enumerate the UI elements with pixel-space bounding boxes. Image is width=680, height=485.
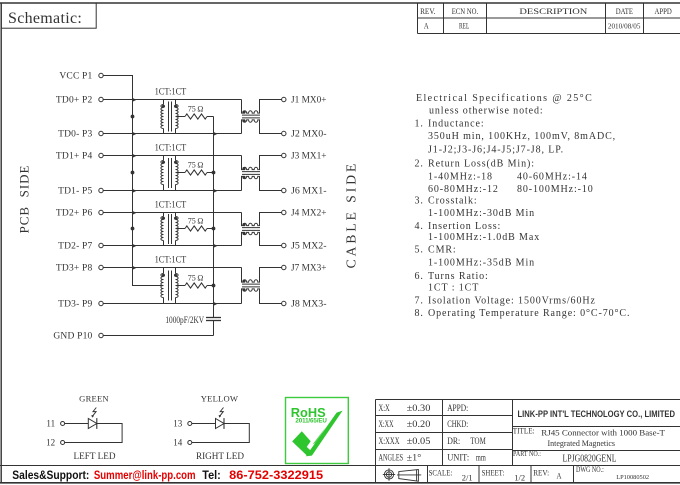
svg-text:TD1+ P4: TD1+ P4 [56, 152, 93, 162]
svg-text:75 Ω: 75 Ω [188, 274, 204, 283]
wire R2 to common rail [207, 172, 214, 174]
transformer T4 1CT:1CT [161, 268, 178, 304]
wire bottom rail channel 4 [103, 303, 241, 305]
pin 12 [46, 438, 65, 448]
pin 11 [46, 419, 64, 429]
page border left [0, 3, 2, 483]
svg-text:1CT:1CT: 1CT:1CT [155, 87, 187, 97]
wire R3 to common rail [207, 228, 214, 230]
svg-text:CABLE SIDE: CABLE SIDE [344, 161, 359, 269]
junction dots VCC rail [131, 115, 135, 231]
svg-text:ECN NO.: ECN NO. [452, 6, 479, 16]
pin P5 TD1- [58, 187, 103, 197]
svg-text:APPD:: APPD: [447, 403, 468, 413]
svg-text:1-100MHz:-1.0dB Max: 1-100MHz:-1.0dB Max [428, 232, 540, 243]
svg-text:A: A [424, 20, 429, 30]
svg-text:7.: 7. [415, 295, 424, 306]
svg-text:TD2+ P6: TD2+ P6 [56, 209, 93, 219]
RoHS logo [286, 398, 349, 464]
svg-text:Summer@link-pp.com: Summer@link-pp.com [94, 468, 196, 482]
svg-text:UNIT:: UNIT: [447, 453, 469, 463]
svg-text:Integrated Magnetics: Integrated Magnetics [548, 438, 616, 448]
svg-text:J2 MX0-: J2 MX0- [291, 130, 327, 140]
pin P2 TD0+ [56, 96, 103, 106]
svg-text:4.: 4. [415, 221, 424, 232]
svg-text:Electrical Specifications @ 25: Electrical Specifications @ 25°C [416, 93, 593, 104]
pin P6 TD2+ [56, 209, 103, 219]
pin 14 [173, 438, 192, 448]
title block [0, 400, 680, 483]
svg-text:VCC P1: VCC P1 [59, 72, 92, 82]
svg-text:J3 MX1+: J3 MX1+ [291, 152, 327, 162]
svg-text:CHKD:: CHKD: [447, 419, 468, 429]
svg-text:A: A [557, 471, 563, 481]
wire T3 secondary tap [176, 228, 186, 230]
page border top [0, 2, 680, 4]
svg-text:13: 13 [173, 419, 183, 429]
svg-text:X:XXX: X:XXX [379, 436, 400, 446]
LED LEFT LED lightning arrow [93, 408, 97, 417]
svg-text:60-80MHz:-12: 60-80MHz:-12 [428, 184, 499, 195]
svg-text:86-752-3322915: 86-752-3322915 [229, 468, 323, 482]
svg-text:1-100MHz:-30dB Min: 1-100MHz:-30dB Min [428, 208, 535, 219]
svg-text:75 Ω: 75 Ω [188, 161, 204, 170]
svg-text:CMR:: CMR: [428, 245, 457, 256]
svg-text:40-60MHz:-14: 40-60MHz:-14 [517, 172, 588, 183]
svg-text:TD0- P3: TD0- P3 [58, 130, 92, 140]
pin J8 [282, 300, 327, 310]
svg-text:unless otherwise noted:: unless otherwise noted: [429, 106, 544, 117]
transformer T1 1CT:1CT [161, 100, 178, 134]
svg-text:12: 12 [46, 438, 55, 448]
svg-text:5.: 5. [415, 245, 424, 256]
common-mode choke L4 [242, 268, 282, 304]
transformer T2 1CT:1CT [161, 156, 178, 191]
pin P9 TD3- [58, 300, 103, 310]
svg-text:6.: 6. [415, 271, 424, 282]
svg-text:11: 11 [46, 419, 55, 429]
wire crossing marks on common rail [214, 132, 218, 306]
svg-text:Turns Ratio:: Turns Ratio: [428, 271, 489, 282]
svg-text:Schematic:: Schematic: [8, 10, 82, 27]
svg-text:DR:: DR: [447, 436, 460, 446]
wire T2 secondary tap [176, 172, 186, 174]
wire bottom rail channel 3 [103, 245, 241, 247]
svg-text:DWG NO.:: DWG NO.: [576, 464, 604, 474]
svg-text:X:XX: X:XX [379, 419, 394, 429]
schematic title box [1, 3, 96, 28]
wire top rail channel 3 [103, 212, 241, 214]
svg-text:±0.05: ±0.05 [407, 436, 431, 446]
svg-text:REL: REL [459, 20, 469, 30]
svg-text:Sales&Support:: Sales&Support: [12, 468, 89, 482]
revision table [418, 3, 680, 34]
svg-text:350uH min, 100KHz, 100mV, 8mAD: 350uH min, 100KHz, 100mV, 8mADC, [428, 131, 616, 142]
svg-text:Crosstalk:: Crosstalk: [428, 196, 478, 207]
svg-text:±1°: ±1° [407, 453, 422, 463]
wire R4 to common rail [207, 285, 214, 287]
svg-text:14: 14 [173, 438, 183, 448]
svg-text:J8 MX3-: J8 MX3- [291, 300, 327, 310]
svg-text:1.: 1. [415, 119, 424, 130]
svg-text:REV.: REV. [420, 6, 435, 16]
resistor R2 75 Ohm [185, 161, 207, 176]
svg-text:mm: mm [476, 453, 486, 463]
svg-text:75 Ω: 75 Ω [188, 105, 204, 114]
svg-text:ANGLES: ANGLES [379, 453, 404, 463]
svg-text:2/1: 2/1 [462, 472, 473, 482]
common-mode choke L2 [242, 156, 282, 191]
svg-text:PART NO.:: PART NO.: [513, 449, 541, 458]
svg-text:Isolation Voltage: 1500Vrms/60: Isolation Voltage: 1500Vrms/60Hz [428, 295, 596, 306]
svg-text:LPJG0820GENL: LPJG0820GENL [563, 454, 617, 465]
svg-text:1-100MHz:-35dB Min: 1-100MHz:-35dB Min [428, 257, 535, 268]
svg-text:TITLE:: TITLE: [513, 427, 535, 436]
transformer T3 1CT:1CT [161, 213, 178, 246]
pin P10 GND [53, 332, 103, 342]
svg-text:2010/08/05: 2010/08/05 [608, 23, 641, 30]
wire top rail channel 4 [103, 267, 241, 269]
svg-text:1CT:1CT: 1CT:1CT [155, 255, 187, 265]
svg-text:SCALE:: SCALE: [429, 467, 453, 477]
wire bottom rail channel 2 [103, 190, 241, 192]
pin 13 [173, 419, 192, 429]
svg-text:1CT:1CT: 1CT:1CT [155, 200, 187, 210]
svg-text:RJ45 Connector with 1000 Base-: RJ45 Connector with 1000 Base-T [541, 427, 666, 437]
LED RIGHT LED diode [216, 418, 225, 429]
svg-text:GREEN: GREEN [79, 394, 109, 404]
svg-text:8.: 8. [415, 308, 424, 319]
svg-text:TD2- P7: TD2- P7 [58, 242, 92, 252]
wire T4 secondary tap [176, 285, 186, 287]
svg-text:DATE: DATE [616, 6, 633, 16]
svg-text:2.: 2. [415, 159, 424, 170]
pin J1 [282, 96, 327, 106]
svg-text:APPD: APPD [655, 6, 672, 16]
svg-text:±0.20: ±0.20 [407, 419, 431, 429]
svg-text:LP10080502: LP10080502 [616, 474, 649, 481]
svg-text:J6 MX1-: J6 MX1- [291, 187, 327, 197]
wire GND P10 to capacitor [103, 335, 213, 337]
svg-text:TD3+ P8: TD3+ P8 [56, 264, 93, 274]
svg-text:1CT : 1CT: 1CT : 1CT [428, 283, 479, 294]
svg-text:LEFT LED: LEFT LED [74, 451, 116, 461]
svg-text:RIGHT LED: RIGHT LED [196, 451, 244, 461]
page border bottom [0, 482, 680, 484]
resistor R3 75 Ohm [185, 217, 207, 232]
svg-text:GND P10: GND P10 [53, 332, 92, 342]
resistor R4 75 Ohm [185, 274, 207, 289]
svg-text:3.: 3. [415, 196, 424, 207]
cone symbol [397, 470, 421, 482]
svg-text:Tel:: Tel: [202, 468, 221, 482]
wire LED RIGHT LED loop [192, 424, 250, 443]
wire R1 to common rail [207, 116, 214, 118]
pin J7 [282, 264, 327, 274]
svg-text:J7 MX3+: J7 MX3+ [291, 264, 327, 274]
wire T1 secondary tap [176, 116, 186, 118]
pin J3 [282, 152, 327, 162]
common-mode choke L3 [242, 213, 282, 246]
net rail: 75ohm commons to capacitor [213, 117, 215, 318]
capacitor C1 1000pF/2KV [165, 315, 221, 335]
LED RIGHT LED lightning arrow [220, 408, 224, 417]
svg-text:Inductance:: Inductance: [428, 119, 485, 130]
pin J6 [282, 187, 327, 197]
svg-text:TD3- P9: TD3- P9 [58, 300, 92, 310]
svg-text:PCB SIDE: PCB SIDE [16, 165, 31, 234]
pin P7 TD2- [58, 242, 103, 252]
svg-text:1/2: 1/2 [514, 472, 525, 482]
svg-text:1-40MHz:-18: 1-40MHz:-18 [428, 172, 493, 183]
junction dots common rail [212, 171, 216, 288]
electrical specifications notes [415, 93, 631, 319]
svg-text:J4 MX2+: J4 MX2+ [291, 209, 327, 219]
svg-text:75 Ω: 75 Ω [188, 217, 204, 226]
pin J4 [282, 209, 327, 219]
svg-text:±0.30: ±0.30 [407, 403, 431, 413]
pin P1 VCC [59, 72, 103, 82]
common-mode choke L1 [242, 100, 282, 134]
wire crossing marks on VCC rail [133, 98, 137, 270]
svg-text:DESCRIPTION: DESCRIPTION [519, 6, 588, 16]
svg-text:SHEET:: SHEET: [482, 467, 505, 477]
svg-text:YELLOW: YELLOW [201, 394, 239, 404]
svg-text:Return Loss(dB Min):: Return Loss(dB Min): [428, 159, 535, 170]
svg-text:J1-J2;J3-J6;J4-J5;J7-J8, LP.: J1-J2;J3-J6;J4-J5;J7-J8, LP. [428, 145, 564, 156]
pin J5 [282, 242, 327, 252]
svg-text:J1 MX0+: J1 MX0+ [291, 96, 327, 106]
svg-text:Operating Temperature Range: 0: Operating Temperature Range: 0°C-70°C. [428, 308, 630, 319]
projection symbol [383, 468, 395, 480]
wire top rail channel 1 [103, 99, 241, 101]
pin P4 TD1+ [56, 152, 103, 162]
wire VCC P1 to center-tap rail [103, 76, 163, 286]
wire LED LEFT LED loop [65, 424, 123, 443]
svg-text:1CT:1CT: 1CT:1CT [155, 143, 187, 153]
svg-text:TOM: TOM [470, 436, 485, 446]
svg-text:X:X: X:X [379, 403, 391, 413]
LED LEFT LED diode [88, 418, 97, 429]
pin P8 TD3+ [56, 264, 103, 274]
svg-text:1000pF/2KV: 1000pF/2KV [165, 315, 204, 325]
svg-text:LINK-PP INT'L TECHNOLOGY CO.,: LINK-PP INT'L TECHNOLOGY CO., LIMITED [518, 409, 676, 420]
resistor R1 75 Ohm [185, 105, 207, 120]
wire top rail channel 2 [103, 155, 241, 157]
svg-text:REV:: REV: [533, 467, 549, 477]
wire bottom rail channel 1 [103, 133, 241, 135]
svg-text:J5 MX2-: J5 MX2- [291, 242, 327, 252]
pin J2 [282, 130, 327, 140]
svg-text:TD1- P5: TD1- P5 [58, 187, 92, 197]
svg-text:80-100MHz:-10: 80-100MHz:-10 [517, 184, 594, 195]
svg-text:Insertion Loss:: Insertion Loss: [428, 221, 501, 232]
pin P3 TD0- [58, 130, 103, 140]
footer sales contact [12, 468, 323, 482]
svg-text:TD0+ P2: TD0+ P2 [56, 96, 93, 106]
svg-text:2011/65/EU: 2011/65/EU [295, 417, 327, 424]
